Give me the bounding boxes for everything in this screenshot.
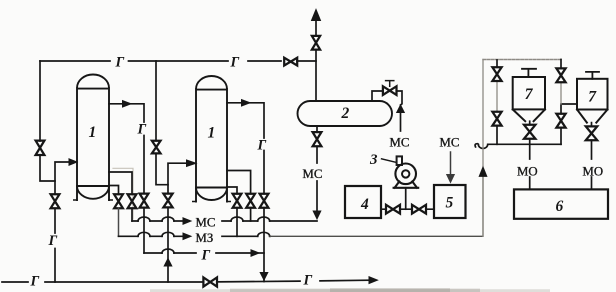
- hopper 7 first: [513, 69, 545, 121]
- valve B: [128, 194, 137, 208]
- wire Г mid line: [144, 252, 251, 254]
- hop MC over G: [258, 217, 270, 221]
- box 4: [345, 186, 381, 218]
- hop Г over D: [162, 249, 174, 253]
- wire M3 long extension grey: [270, 176, 483, 236]
- svg-text:МС: МС: [440, 136, 460, 150]
- svg-text:6: 6: [556, 198, 564, 215]
- wire vessel 1a side ports: [109, 172, 132, 194]
- wire riser to vessel 1a inlet: [55, 162, 69, 282]
- valve bypass actuator stem: [386, 81, 394, 87]
- svg-text:5: 5: [446, 195, 454, 212]
- pump 3: [394, 164, 419, 188]
- valve hopper 1 bottom: [524, 125, 535, 139]
- bottom smudge artifact: [150, 288, 550, 292]
- vessel 2: [298, 101, 392, 126]
- svg-text:Г: Г: [303, 272, 313, 288]
- svg-text:Г: Г: [48, 233, 58, 249]
- valve flare: [312, 36, 320, 50]
- arrow M3 label: [183, 233, 191, 239]
- hop MC over D: [162, 217, 174, 221]
- wire vessel 1b side ports: [227, 171, 251, 194]
- valve F: [246, 194, 255, 208]
- svg-text:1: 1: [208, 125, 216, 142]
- arrow into vessel 1b: [187, 160, 197, 166]
- arrow MC down into box 5: [450, 152, 452, 175]
- wire D column down to main: [167, 207, 169, 282]
- wire valve B to MC line: [131, 208, 133, 221]
- valve between pump and 5: [412, 205, 426, 214]
- wire pump to line: [405, 188, 407, 209]
- vessel 1b: [193, 76, 230, 201]
- valve x561 lower: [556, 114, 565, 128]
- svg-text:1: 1: [89, 124, 97, 141]
- vessel 1a: [74, 75, 112, 201]
- svg-text:7: 7: [588, 88, 597, 105]
- hop MC over C: [138, 217, 150, 221]
- valve G: [260, 194, 269, 208]
- wire 1b inlet: [168, 163, 187, 185]
- svg-text:Г: Г: [257, 138, 267, 154]
- svg-text:Г: Г: [115, 55, 125, 71]
- wire F to MC: [250, 208, 252, 221]
- hop M3 over D: [162, 232, 174, 236]
- wire M3 manifold: [119, 235, 271, 237]
- arrow end bottom main: [369, 277, 378, 284]
- valve drain: [313, 132, 322, 146]
- svg-text:МС: МС: [196, 216, 216, 230]
- valve x561 upper: [556, 68, 565, 82]
- svg-text:7: 7: [525, 86, 534, 103]
- wire valve column x561: [561, 60, 577, 145]
- wire grey riser M3 to header: [482, 60, 484, 237]
- svg-text:МС: МС: [390, 136, 410, 150]
- wire E to M3: [236, 208, 238, 237]
- wire between 4 and 5: [381, 208, 434, 210]
- svg-text:Г: Г: [201, 248, 211, 264]
- svg-text:МС: МС: [303, 167, 323, 181]
- wire grey vent header: [483, 59, 561, 61]
- wire valve column x497: [496, 60, 498, 144]
- svg-text:2: 2: [341, 105, 350, 122]
- svg-text:4: 4: [360, 196, 369, 213]
- wire G down to main: [263, 208, 265, 282]
- valve bypass: [383, 86, 397, 95]
- arrow up MC into bypass: [397, 105, 405, 113]
- valve V2 on riser: [51, 194, 60, 208]
- wire MC manifold: [132, 220, 317, 222]
- valve x497 upper: [492, 67, 501, 81]
- svg-text:МЗ: МЗ: [196, 231, 214, 245]
- valve on D column upper: [152, 141, 161, 154]
- wire flare riser: [315, 20, 317, 102]
- ghost faint rectangle artifact: [113, 168, 133, 219]
- box 5: [434, 185, 466, 218]
- wire valve A to M3 line: [118, 208, 120, 236]
- wire vessel 1a top arm to Г drop: [109, 104, 144, 194]
- svg-text:Г: Г: [30, 274, 40, 290]
- arrow up on M3 riser: [479, 167, 487, 176]
- valve on top header: [284, 58, 297, 66]
- wire D column from header: [156, 61, 168, 194]
- hop M3 over C: [138, 232, 150, 236]
- hopper 7 second: [577, 72, 608, 123]
- valve x497 lower: [492, 112, 501, 126]
- svg-text:Г: Г: [137, 122, 147, 138]
- wire vessel 2 drain: [316, 126, 318, 211]
- wire left branch from header down: [40, 61, 55, 181]
- valve on bottom main: [203, 277, 217, 286]
- hop M3 over G: [258, 232, 270, 236]
- wire vessel 2 bypass: [372, 91, 402, 105]
- wire hopper2 to box 6: [591, 123, 593, 190]
- svg-text:МО: МО: [583, 165, 604, 179]
- arrow down drain to MC manifold: [313, 211, 321, 219]
- wire valve C to mid gas line: [143, 208, 145, 253]
- valve V1 left branch: [36, 141, 45, 155]
- valve C: [140, 194, 149, 208]
- wire hopper1 to collection and box 6: [529, 121, 531, 189]
- arrow MC label: [183, 218, 191, 224]
- arrow into vessel 1a: [69, 159, 77, 165]
- box 6: [514, 189, 608, 218]
- valve A: [114, 194, 123, 208]
- valve hopper 2 bottom: [586, 126, 597, 140]
- arrow on 1a arm: [123, 101, 132, 107]
- arrow up on D column: [164, 259, 172, 267]
- wire vessel 1b top arm: [227, 103, 264, 194]
- wire top gas header Г: [40, 60, 316, 62]
- valve E: [233, 194, 242, 208]
- arrow Г mid to G column: [251, 250, 259, 256]
- valve D: [163, 194, 172, 208]
- arrow flare top: [312, 10, 321, 21]
- wire collection line to hoppers: [475, 144, 561, 149]
- svg-text:Г: Г: [230, 55, 240, 71]
- arrow on 1b arm: [242, 100, 251, 106]
- svg-text:3: 3: [369, 152, 378, 168]
- arrow down on G column: [260, 273, 268, 281]
- valve between 4 and pump: [386, 205, 400, 214]
- pump flag: [397, 156, 402, 165]
- svg-text:МО: МО: [517, 165, 538, 179]
- hop MC over E: [231, 217, 243, 221]
- wire bottom main gas line: [2, 280, 369, 282]
